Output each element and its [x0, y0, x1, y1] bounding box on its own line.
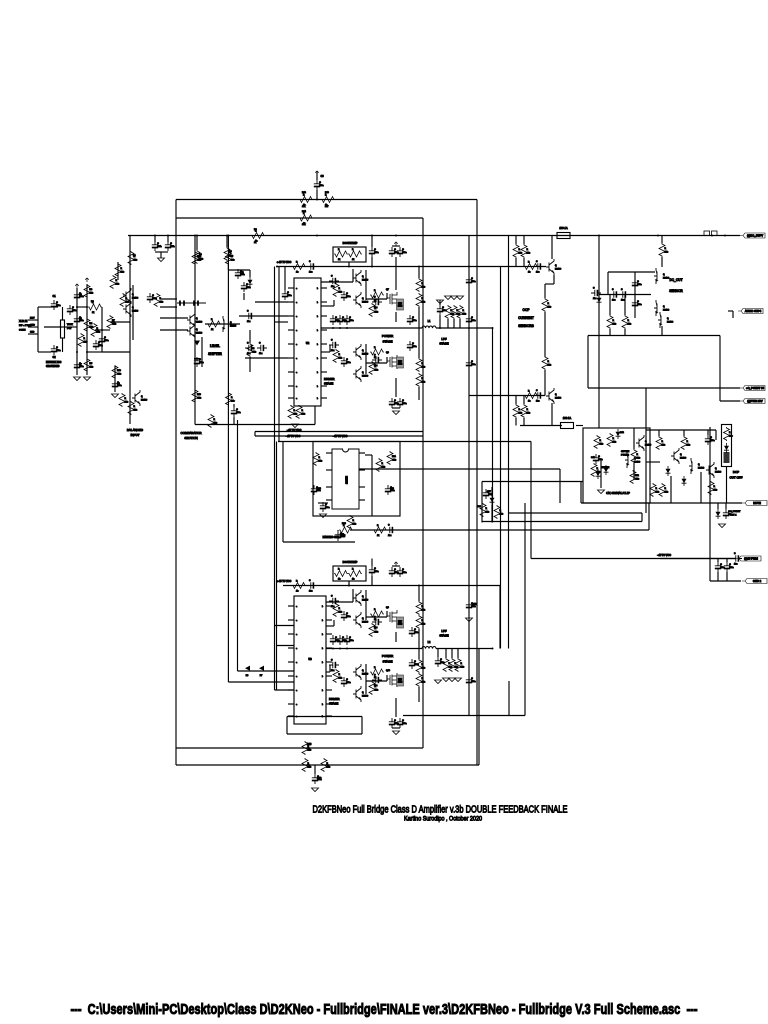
svg-text:BD139: BD139 [555, 269, 562, 271]
svg-text:R: R [656, 488, 658, 490]
svg-text:R: R [339, 288, 341, 290]
svg-text:C: C [402, 720, 404, 722]
svg-text:10k: 10k [84, 342, 87, 344]
svg-text:1k: 1k [352, 579, 354, 581]
svg-text:b: b [322, 676, 323, 678]
svg-text:100n: 100n [316, 490, 320, 492]
svg-text:R: R [461, 663, 463, 665]
svg-text:C: C [394, 400, 396, 402]
svg-text:BD139: BD139 [663, 310, 670, 312]
svg-text:R3: R3 [90, 289, 94, 291]
svg-text:Q: Q [362, 670, 364, 672]
svg-text:C: C [331, 340, 333, 342]
svg-text:100n: 100n [319, 185, 323, 187]
svg-text:100n: 100n [346, 682, 350, 684]
svg-text:CONN: CONN [19, 330, 26, 332]
svg-text:C: C [170, 243, 172, 245]
svg-text:R: R [121, 268, 123, 270]
svg-text:10k: 10k [339, 612, 342, 614]
svg-text:100n: 100n [471, 281, 475, 283]
svg-text:CUT OFF: CUT OFF [730, 476, 743, 480]
svg-text:(+)PWM 15V: (+)PWM 15V [747, 399, 763, 403]
svg-text:100 1A: 100 1A [563, 416, 571, 420]
svg-text:100n: 100n [414, 664, 418, 666]
svg-text:250N: 250N [398, 682, 403, 684]
svg-text:10k: 10k [375, 632, 378, 634]
svg-text:b: b [322, 648, 323, 650]
svg-text:100n: 100n [471, 320, 475, 322]
svg-text:10k: 10k [339, 292, 342, 294]
svg-text:CLPWM: CLPWM [621, 451, 629, 453]
svg-text:XLR IN: XLR IN [19, 319, 27, 323]
svg-text:100n: 100n [79, 320, 83, 322]
svg-text:R: R [382, 463, 384, 465]
svg-text:--15 TO VCC: --15 TO VCC [657, 554, 671, 557]
svg-text:Q7: Q7 [386, 289, 390, 291]
svg-text:10k: 10k [327, 767, 330, 769]
svg-text:10u: 10u [734, 564, 737, 566]
svg-text:R: R [374, 609, 376, 611]
svg-text:C: C [471, 278, 473, 280]
svg-text:10u: 10u [331, 606, 334, 608]
svg-text:100n: 100n [637, 304, 641, 306]
svg-text:10k: 10k [628, 324, 631, 326]
svg-text:10k: 10k [134, 260, 137, 262]
svg-text:R: R [613, 438, 615, 440]
svg-text:1k: 1k [92, 312, 94, 314]
svg-text:100n: 100n [199, 362, 203, 364]
svg-text:R: R [377, 525, 379, 527]
svg-text:(+)DC_SUPV: (+)DC_SUPV [747, 234, 763, 238]
svg-text:DC_OUT: DC_OUT [669, 278, 682, 282]
svg-text:C: C [394, 720, 396, 722]
svg-text:R10: R10 [117, 370, 122, 372]
svg-text:Q: Q [362, 596, 364, 598]
svg-text:Q: Q [663, 274, 665, 276]
svg-text:b: b [317, 288, 318, 290]
svg-text:R5: R5 [90, 363, 94, 365]
svg-text:GND: GND [30, 325, 35, 327]
svg-text:a: a [296, 358, 297, 360]
svg-text:R: R [519, 249, 521, 251]
svg-text:R: R [352, 249, 354, 251]
svg-text:10k: 10k [422, 668, 425, 670]
svg-text:Q: Q [362, 276, 364, 278]
svg-text:Q9: Q9 [386, 607, 390, 609]
svg-text:R: R [214, 419, 216, 421]
svg-text:OCP: OCP [523, 308, 530, 312]
svg-text:R: R [665, 248, 667, 250]
svg-text:100n: 100n [710, 440, 714, 442]
svg-text:a: a [296, 344, 297, 346]
svg-text:+-15 TO VCC: +-15 TO VCC [277, 580, 292, 583]
svg-text:BD139: BD139 [141, 400, 148, 402]
svg-text:10k: 10k [375, 312, 378, 314]
svg-text:R60: R60 [307, 743, 312, 746]
svg-text:R: R [729, 432, 731, 434]
svg-text:C: C [346, 359, 348, 361]
svg-text:C: C [414, 629, 416, 631]
svg-text:R: R [116, 280, 118, 282]
svg-text:100n: 100n [346, 296, 350, 298]
svg-text:BALANCED: BALANCED [127, 428, 144, 432]
svg-text:10u: 10u [259, 353, 262, 355]
svg-text:R: R [665, 488, 667, 490]
svg-text:--15 TO VCC: --15 TO VCC [286, 435, 301, 438]
svg-text:4k7: 4k7 [325, 206, 329, 208]
svg-text:BD139: BD139 [362, 302, 369, 304]
svg-text:BD139: BD139 [230, 326, 237, 328]
svg-text:10k: 10k [548, 365, 551, 367]
svg-text:R: R [528, 390, 530, 392]
svg-text:C: C [346, 679, 348, 681]
svg-text:C: C [331, 660, 333, 662]
svg-text:R: R [374, 290, 376, 292]
svg-text:BD139: BD139 [362, 622, 369, 624]
svg-text:R19: R19 [197, 394, 202, 396]
svg-text:C: C [402, 249, 404, 251]
svg-text:R: R [613, 320, 615, 322]
svg-text:10k: 10k [656, 492, 659, 494]
svg-text:C: C [259, 343, 261, 345]
svg-text:100n: 100n [346, 616, 350, 618]
svg-text:b: b [317, 372, 318, 374]
svg-text:10u: 10u [331, 350, 334, 352]
svg-text:C_PSW3T: C_PSW3T [730, 511, 741, 513]
svg-text:1k: 1k [338, 579, 340, 581]
svg-text:R14: R14 [302, 211, 307, 213]
svg-text:C: C [247, 311, 249, 313]
svg-text:10k: 10k [308, 750, 311, 752]
svg-text:--15 TO VCC: --15 TO VCC [333, 435, 348, 438]
svg-text:10k: 10k [714, 490, 717, 492]
svg-text:Q: Q [362, 618, 364, 620]
svg-text:R: R [231, 397, 233, 399]
svg-text:R: R [303, 194, 305, 196]
svg-text:100n: 100n [340, 536, 344, 538]
svg-text:R: R [714, 486, 716, 488]
svg-text:BD139: BD139 [663, 278, 670, 280]
svg-text:b: b [317, 358, 318, 360]
svg-text:10k: 10k [519, 413, 522, 415]
svg-text:Q: Q [362, 372, 364, 374]
svg-text:100n: 100n [240, 274, 244, 276]
svg-text:R: R [463, 310, 465, 312]
svg-text:R: R [600, 440, 602, 442]
svg-text:a: a [296, 620, 297, 622]
svg-text:C: C [621, 289, 623, 291]
svg-text:CLD: CLD [30, 332, 35, 334]
svg-text:10k: 10k [134, 410, 137, 412]
svg-text:C: C [325, 504, 327, 506]
svg-text:POWER: POWER [382, 334, 394, 338]
svg-text:GROUNDED: GROUNDED [46, 366, 60, 368]
svg-text:10k: 10k [422, 287, 425, 289]
svg-text:10k: 10k [302, 206, 306, 208]
svg-text:C: C [593, 288, 595, 290]
svg-text:10k: 10k [665, 492, 668, 494]
svg-text:C: C [471, 678, 473, 680]
svg-text:100n: 100n [104, 340, 108, 342]
svg-text:a: a [296, 606, 297, 608]
svg-text:10k: 10k [113, 324, 116, 326]
svg-text:C33: C33 [472, 603, 477, 606]
svg-text:100n: 100n [287, 295, 291, 297]
svg-text:b: b [317, 344, 318, 346]
svg-text:L1: L1 [428, 320, 431, 323]
svg-text:10k: 10k [422, 302, 425, 304]
svg-text:DRIVER: DRIVER [324, 377, 335, 381]
svg-text:100n: 100n [414, 632, 418, 634]
svg-text:C: C [349, 637, 351, 639]
svg-text:R: R [628, 320, 630, 322]
svg-text:10k: 10k [422, 624, 425, 626]
svg-text:1k: 1k [352, 259, 354, 261]
svg-text:R4: R4 [90, 323, 94, 325]
svg-text:10u: 10u [621, 300, 624, 302]
svg-text:10k: 10k [662, 445, 665, 447]
svg-text:R: R [374, 667, 376, 669]
svg-text:R: R [338, 249, 340, 251]
svg-text:L2: L2 [428, 641, 431, 644]
svg-text:b: b [322, 690, 323, 692]
svg-text:10u: 10u [331, 670, 334, 672]
svg-text:STAGE: STAGE [439, 634, 448, 638]
svg-text:C: C [319, 182, 321, 184]
svg-text:10k: 10k [687, 445, 690, 447]
svg-text:100n: 100n [117, 385, 121, 387]
svg-text:a: a [296, 386, 297, 388]
svg-text:Q: Q [141, 396, 143, 398]
svg-text:STAGE: STAGE [324, 382, 333, 386]
svg-text:GND 2: GND 2 [753, 579, 762, 583]
svg-text:1k: 1k [377, 535, 379, 537]
svg-text:10k: 10k [461, 667, 464, 669]
svg-text:LPF: LPF [441, 629, 446, 633]
svg-text:Q: Q [663, 306, 665, 308]
svg-text:R12: R12 [302, 192, 307, 194]
svg-text:C: C [471, 317, 473, 319]
svg-text:10k: 10k [637, 458, 640, 460]
svg-text:R: R [339, 674, 341, 676]
svg-text:C27: C27 [487, 491, 492, 493]
svg-text:ON SIGNAL/CLIP: ON SIGNAL/CLIP [606, 491, 630, 495]
svg-text:R6: R6 [91, 301, 95, 303]
svg-text:R: R [527, 249, 529, 251]
svg-text:10k: 10k [548, 307, 551, 309]
svg-text:10k: 10k [422, 382, 425, 384]
svg-text:100n: 100n [471, 364, 475, 366]
svg-text:100n: 100n [79, 296, 83, 298]
svg-text:10k: 10k [519, 253, 522, 255]
svg-text:100n: 100n [471, 681, 475, 683]
svg-text:10k: 10k [353, 524, 356, 526]
svg-text:C: C [157, 243, 159, 245]
svg-text:R33: R33 [342, 523, 347, 525]
svg-text:10k: 10k [600, 444, 603, 446]
svg-text:R: R [339, 354, 341, 356]
svg-text:R: R [296, 580, 298, 582]
svg-text:10k: 10k [160, 302, 163, 304]
svg-text:a: a [296, 704, 297, 706]
svg-text:C22: C22 [317, 488, 322, 490]
svg-text:C: C [72, 307, 74, 309]
svg-text:STAGE: STAGE [383, 660, 393, 664]
svg-text:a: a [296, 330, 297, 332]
svg-text:Q: Q [196, 329, 198, 331]
svg-text:10k: 10k [527, 253, 530, 255]
svg-text:10k: 10k [126, 302, 129, 304]
svg-text:100 1A: 100 1A [559, 226, 567, 230]
svg-text:100n: 100n [374, 252, 378, 254]
svg-text:R13: R13 [325, 192, 330, 194]
svg-text:10u: 10u [612, 300, 615, 302]
svg-text:100n: 100n [325, 507, 329, 509]
svg-text:10k: 10k [422, 610, 425, 612]
svg-text:a: a [296, 372, 297, 374]
svg-text:R: R [294, 410, 296, 412]
svg-text:a: a [296, 676, 297, 678]
svg-text:STAGE: STAGE [439, 342, 448, 346]
svg-text:10k: 10k [393, 460, 396, 462]
svg-text:R: R [338, 568, 340, 570]
svg-text:C: C [412, 343, 414, 345]
svg-text:10k: 10k [500, 514, 503, 516]
svg-text:10k: 10k [231, 401, 234, 403]
svg-text:10u: 10u [536, 272, 539, 274]
svg-text:BD139: BD139 [667, 322, 674, 324]
svg-text:a: a [296, 648, 297, 650]
svg-text:10k: 10k [253, 352, 256, 354]
svg-text:C: C [346, 613, 348, 615]
svg-text:SENSORS: SENSORS [518, 324, 534, 328]
svg-text:Q: Q [196, 318, 198, 320]
svg-text:C: C [56, 302, 58, 304]
svg-text:Q8: Q8 [386, 352, 390, 354]
svg-text:COMPARATOR: COMPARATOR [180, 431, 202, 435]
svg-text:b: b [317, 386, 318, 388]
svg-text:10k: 10k [121, 272, 124, 274]
svg-text:R: R [296, 261, 298, 263]
svg-text:10k: 10k [308, 767, 311, 769]
svg-text:BOOTSTRAP: BOOTSTRAP [343, 561, 358, 564]
svg-text:BD139: BD139 [680, 458, 687, 460]
svg-text:C: C [637, 281, 639, 283]
svg-text:Q10: Q10 [386, 670, 391, 672]
svg-text:100n: 100n [471, 606, 475, 608]
svg-text:a: a [296, 302, 297, 304]
svg-text:R: R [687, 441, 689, 443]
svg-text:(+)15 PWM: (+)15 PWM [744, 557, 758, 561]
svg-text:NEUTRIK NC3: NEUTRIK NC3 [46, 362, 62, 364]
svg-text:R: R [353, 520, 355, 522]
svg-text:C2: C2 [52, 356, 56, 359]
svg-text:100n: 100n [390, 490, 394, 492]
svg-text:R: R [527, 409, 529, 411]
svg-text:BD139: BD139 [362, 696, 369, 698]
svg-text:10u: 10u [247, 321, 250, 323]
svg-text:U3: U3 [308, 657, 312, 661]
svg-text:b: b [317, 316, 318, 318]
svg-text:C: C [287, 292, 289, 294]
svg-text:10k: 10k [125, 402, 128, 404]
svg-text:C: C [374, 568, 376, 570]
svg-text:R: R [486, 508, 488, 510]
svg-text:a: a [296, 398, 297, 400]
svg-text:b: b [322, 606, 323, 608]
svg-text:C: C [402, 400, 404, 402]
svg-text:Q: Q [362, 350, 364, 352]
svg-text:C: C [598, 456, 600, 458]
svg-text:b: b [322, 620, 323, 622]
svg-text:C: C [104, 337, 106, 339]
svg-text:D7: D7 [260, 675, 263, 677]
svg-text:a: a [296, 662, 297, 664]
svg-text:10u: 10u [247, 353, 250, 355]
svg-text:10u: 10u [309, 272, 312, 274]
svg-text:a: a [296, 690, 297, 692]
svg-text:D12: D12 [620, 432, 625, 434]
svg-text:b: b [322, 704, 323, 706]
svg-text:CLPWM: CLPWM [601, 467, 609, 469]
svg-text:C: C [374, 297, 376, 299]
svg-text:10k: 10k [198, 398, 201, 400]
svg-text:Q: Q [555, 394, 557, 396]
svg-text:Q: Q [362, 298, 364, 300]
svg-text:250N: 250N [398, 364, 403, 366]
svg-text:100n: 100n [374, 571, 378, 573]
svg-text:POT: POT [67, 328, 72, 330]
svg-text:R: R [303, 213, 305, 215]
svg-text:C: C [710, 437, 712, 439]
svg-text:Kartino Surodipo , October 202: Kartino Surodipo , October 2020 [404, 816, 482, 823]
svg-text:10k: 10k [90, 367, 93, 369]
svg-text:SECTION: SECTION [184, 436, 197, 440]
svg-text:INPUT: INPUT [131, 433, 140, 437]
svg-text:R: R [134, 406, 136, 408]
svg-text:10k: 10k [729, 436, 732, 438]
svg-text:100n: 100n [79, 366, 83, 368]
svg-text:100n: 100n [637, 284, 641, 286]
svg-text:C: C [440, 659, 442, 661]
svg-text:10k: 10k [339, 358, 342, 360]
svg-text:10k: 10k [613, 442, 616, 444]
svg-text:b: b [317, 398, 318, 400]
svg-text:b: b [317, 330, 318, 332]
svg-text:100n: 100n [402, 252, 406, 254]
svg-text:100n: 100n [246, 287, 250, 289]
svg-text:R: R [125, 398, 127, 400]
svg-text:C: C [720, 564, 722, 566]
svg-text:100n: 100n [236, 412, 240, 414]
svg-text:10k: 10k [463, 314, 466, 316]
svg-text:100n: 100n [346, 362, 350, 364]
svg-text:10k: 10k [231, 260, 234, 262]
svg-text:C: C [402, 569, 404, 571]
svg-text:100n: 100n [349, 640, 353, 642]
svg-text:100n: 100n [56, 350, 60, 352]
svg-text:10k: 10k [382, 467, 385, 469]
svg-text:10u: 10u [309, 591, 312, 593]
svg-text:R: R [339, 608, 341, 610]
svg-text:10u: 10u [331, 286, 334, 288]
svg-text:1k: 1k [296, 591, 298, 593]
svg-text:C: C [729, 564, 731, 566]
svg-text:CUT 4: CUT 4 [730, 515, 737, 517]
svg-text:U2: U2 [306, 341, 310, 345]
svg-text:C: C [152, 295, 154, 297]
svg-text:DCP: DCP [733, 470, 739, 474]
